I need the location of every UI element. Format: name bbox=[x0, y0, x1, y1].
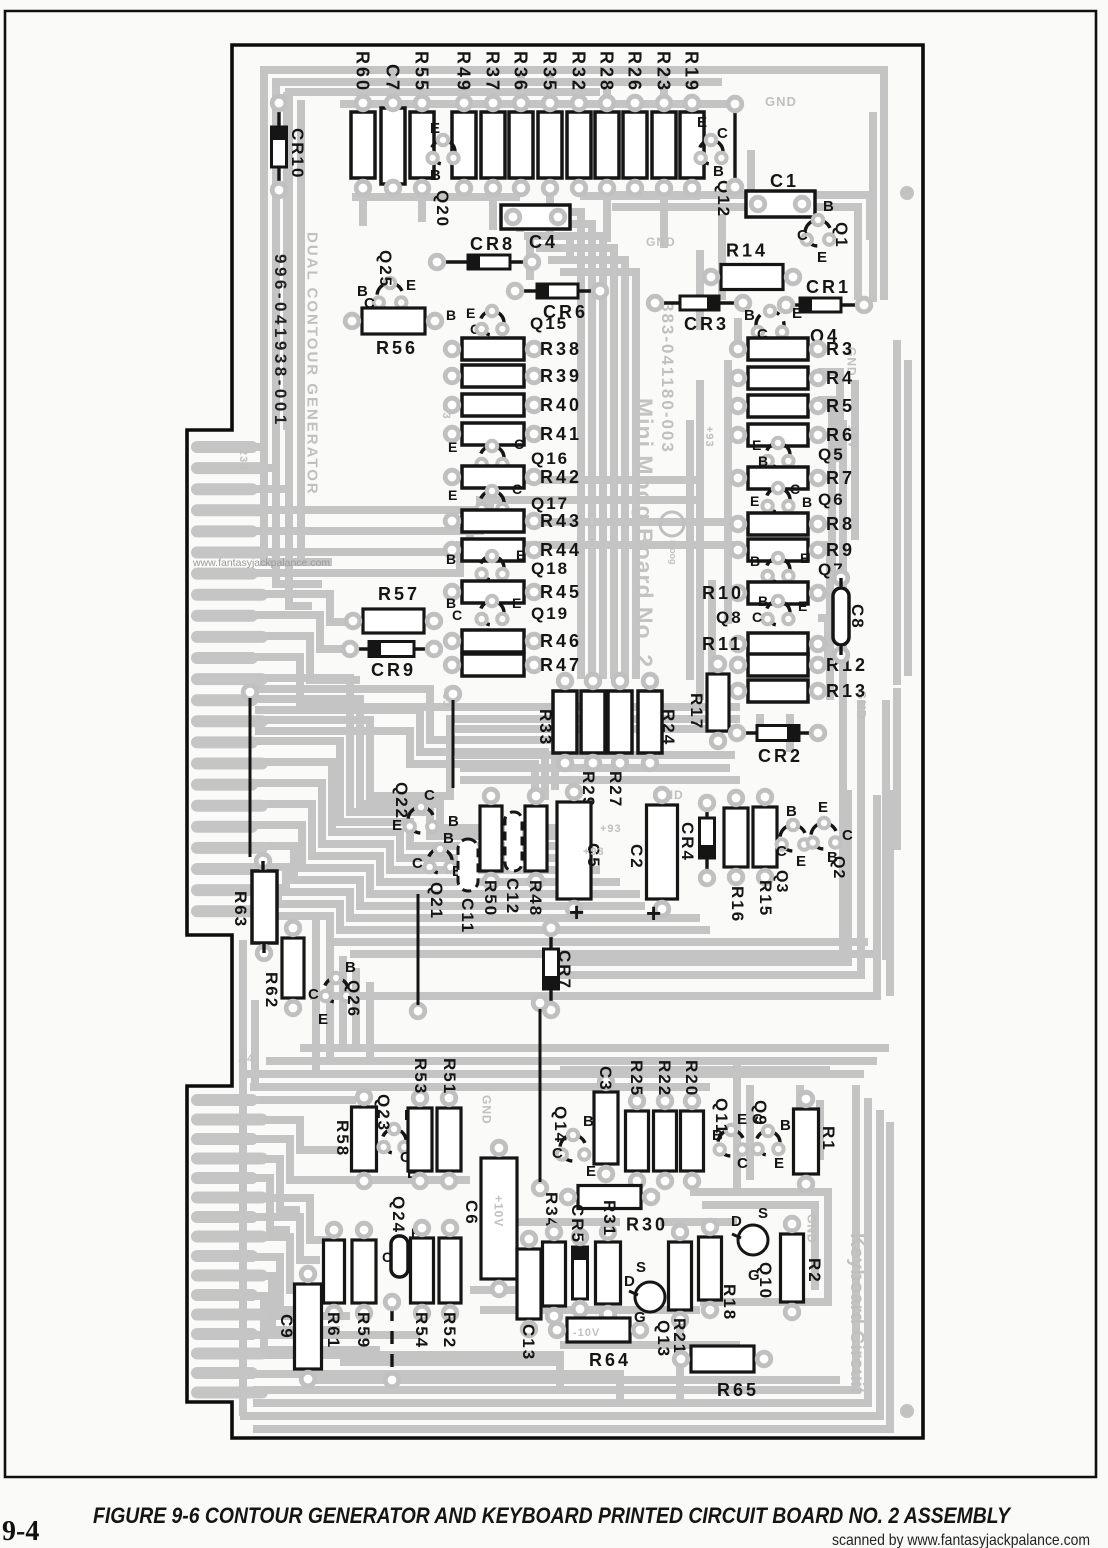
svg-text:CR4: CR4 bbox=[678, 822, 697, 862]
svg-text:Q15: Q15 bbox=[530, 314, 568, 333]
svg-text:CR1: CR1 bbox=[806, 277, 851, 297]
svg-text:Q18: Q18 bbox=[531, 559, 569, 578]
svg-text:www.fantasyjackpalance.com: www.fantasyjackpalance.com bbox=[192, 557, 330, 569]
svg-text:C2: C2 bbox=[627, 844, 646, 870]
svg-text:R59: R59 bbox=[354, 1312, 373, 1349]
svg-text:R13: R13 bbox=[826, 681, 868, 701]
svg-text:moog: moog bbox=[668, 540, 678, 565]
svg-text:R49: R49 bbox=[454, 51, 474, 93]
svg-text:D: D bbox=[731, 1213, 742, 1230]
svg-text:+93: +93 bbox=[600, 823, 622, 835]
svg-text:B: B bbox=[713, 163, 724, 180]
svg-text:B: B bbox=[758, 593, 768, 609]
svg-text:C7: C7 bbox=[383, 64, 403, 93]
svg-text:C: C bbox=[382, 1249, 392, 1265]
svg-text:+10V: +10V bbox=[492, 1195, 506, 1227]
svg-text:E: E bbox=[737, 1111, 747, 1128]
svg-text:C: C bbox=[797, 227, 808, 244]
svg-text:R51: R51 bbox=[440, 1058, 459, 1095]
svg-text:R43: R43 bbox=[540, 511, 582, 531]
svg-text:Q26: Q26 bbox=[344, 980, 363, 1018]
svg-text:R15: R15 bbox=[756, 880, 775, 917]
svg-text:CR5: CR5 bbox=[568, 1204, 587, 1244]
svg-text:GND: GND bbox=[480, 1095, 494, 1125]
svg-text:R27: R27 bbox=[606, 771, 625, 808]
svg-text:R11: R11 bbox=[702, 634, 743, 654]
svg-text:E: E bbox=[752, 437, 761, 453]
svg-text:R33: R33 bbox=[536, 709, 555, 746]
svg-text:R21: R21 bbox=[670, 1318, 689, 1355]
svg-text:+: + bbox=[646, 898, 661, 928]
svg-text:D: D bbox=[624, 1273, 635, 1290]
svg-text:R35: R35 bbox=[540, 51, 560, 93]
svg-text:Q8: Q8 bbox=[716, 608, 743, 627]
svg-text:R24: R24 bbox=[659, 709, 678, 746]
svg-text:C: C bbox=[308, 986, 319, 1003]
svg-text:+93: +93 bbox=[583, 846, 605, 858]
svg-text:R10: R10 bbox=[702, 583, 744, 603]
svg-text:GND: GND bbox=[646, 235, 676, 249]
svg-text:CR9: CR9 bbox=[371, 660, 416, 680]
svg-text:B: B bbox=[786, 803, 797, 820]
svg-text:G: G bbox=[634, 1309, 646, 1326]
svg-text:Q3: Q3 bbox=[773, 870, 790, 893]
svg-text:CR2: CR2 bbox=[758, 746, 803, 766]
svg-text:C4: C4 bbox=[529, 232, 558, 252]
svg-text:E: E bbox=[516, 547, 525, 563]
svg-text:B: B bbox=[758, 453, 768, 469]
svg-text:S: S bbox=[758, 1205, 768, 1222]
svg-text:238: 238 bbox=[237, 449, 249, 470]
svg-text:R40: R40 bbox=[540, 395, 582, 415]
svg-text:Q25: Q25 bbox=[376, 250, 395, 288]
svg-text:C: C bbox=[752, 609, 762, 625]
svg-text:S: S bbox=[636, 1259, 646, 1276]
svg-text:R63: R63 bbox=[231, 891, 250, 928]
svg-text:R54: R54 bbox=[412, 1312, 431, 1349]
svg-text:R19: R19 bbox=[682, 51, 702, 93]
svg-text:E: E bbox=[792, 305, 802, 322]
svg-text:CR8: CR8 bbox=[470, 234, 515, 254]
svg-text:E: E bbox=[818, 799, 828, 816]
svg-text:R61: R61 bbox=[324, 1312, 343, 1349]
svg-text:Q6: Q6 bbox=[818, 490, 845, 509]
svg-text:R36: R36 bbox=[511, 51, 531, 93]
svg-text:C: C bbox=[790, 481, 800, 497]
svg-text:R56: R56 bbox=[376, 338, 418, 358]
svg-text:R48: R48 bbox=[526, 880, 545, 917]
svg-text:E: E bbox=[430, 120, 440, 137]
svg-text:C: C bbox=[512, 481, 522, 497]
svg-text:B: B bbox=[446, 551, 456, 567]
svg-text:B: B bbox=[448, 813, 459, 830]
svg-text:996-041938-001: 996-041938-001 bbox=[271, 254, 290, 428]
svg-text:383-041180-003: 383-041180-003 bbox=[658, 302, 677, 454]
svg-text:9-4: 9-4 bbox=[2, 1516, 39, 1547]
svg-text:R14: R14 bbox=[726, 241, 768, 261]
svg-text:R53: R53 bbox=[411, 1058, 430, 1095]
svg-text:CR7: CR7 bbox=[555, 950, 574, 990]
svg-text:E: E bbox=[774, 1155, 784, 1172]
svg-text:Q24: Q24 bbox=[389, 1196, 408, 1234]
svg-text:C9: C9 bbox=[277, 1314, 296, 1340]
svg-text:E: E bbox=[512, 595, 521, 611]
svg-text:Mini Moog Board No. 2: Mini Moog Board No. 2 bbox=[632, 398, 658, 668]
svg-text:C: C bbox=[412, 855, 423, 872]
svg-text:R58: R58 bbox=[333, 1120, 352, 1157]
svg-text:CR10: CR10 bbox=[288, 128, 307, 179]
svg-text:R44: R44 bbox=[540, 540, 582, 560]
svg-text:R7: R7 bbox=[826, 468, 855, 488]
svg-text:R6: R6 bbox=[826, 425, 855, 445]
svg-text:B: B bbox=[583, 1113, 594, 1130]
svg-text:GND: GND bbox=[765, 94, 797, 109]
svg-text:B: B bbox=[780, 1117, 791, 1134]
svg-text:A4: A4 bbox=[238, 1053, 254, 1065]
svg-text:R38: R38 bbox=[540, 339, 582, 359]
svg-text:R20: R20 bbox=[682, 1060, 701, 1097]
svg-text:E: E bbox=[750, 493, 759, 509]
svg-text:E: E bbox=[448, 487, 457, 503]
svg-text:C: C bbox=[737, 1155, 748, 1172]
svg-text:scanned by www.fantasyjackpala: scanned by www.fantasyjackpalance.com bbox=[832, 1532, 1090, 1548]
svg-text:C11: C11 bbox=[458, 898, 477, 934]
svg-text:Q21: Q21 bbox=[427, 882, 446, 920]
svg-text:R37: R37 bbox=[483, 51, 503, 93]
svg-text:Q11: Q11 bbox=[712, 1098, 731, 1135]
svg-text:Keyboard Circuit: Keyboard Circuit bbox=[846, 1233, 867, 1394]
svg-text:CR3: CR3 bbox=[684, 314, 729, 334]
svg-text:DUAL CONTOUR GENERATOR: DUAL CONTOUR GENERATOR bbox=[304, 232, 321, 496]
svg-text:E: E bbox=[817, 249, 827, 266]
svg-text:E: E bbox=[798, 598, 807, 614]
svg-text:E: E bbox=[697, 114, 707, 131]
svg-text:Q16: Q16 bbox=[531, 449, 569, 468]
svg-text:R3: R3 bbox=[826, 339, 855, 359]
svg-text:R46: R46 bbox=[540, 631, 582, 651]
svg-text:Q1: Q1 bbox=[832, 222, 851, 249]
svg-text:C8: C8 bbox=[848, 604, 867, 630]
svg-text:B: B bbox=[446, 307, 456, 323]
svg-text:C: C bbox=[842, 827, 853, 844]
svg-text:R22: R22 bbox=[655, 1060, 674, 1097]
svg-text:+: + bbox=[569, 897, 584, 927]
svg-text:Q10: Q10 bbox=[756, 1262, 775, 1300]
svg-text:B: B bbox=[345, 959, 356, 976]
svg-text:R65: R65 bbox=[717, 1380, 759, 1400]
svg-text:R5: R5 bbox=[826, 396, 855, 416]
svg-text:Q22: Q22 bbox=[392, 782, 411, 820]
svg-text:R32: R32 bbox=[569, 51, 589, 93]
svg-text:R47: R47 bbox=[540, 655, 582, 675]
svg-text:C1: C1 bbox=[770, 171, 799, 191]
svg-text:-10V: -10V bbox=[573, 1327, 600, 1339]
svg-text:E: E bbox=[318, 1011, 328, 1028]
svg-text:R1: R1 bbox=[819, 1126, 838, 1152]
svg-text:Q19: Q19 bbox=[531, 604, 569, 623]
svg-text:B: B bbox=[744, 307, 755, 324]
svg-text:R18: R18 bbox=[720, 1284, 739, 1321]
svg-text:R57: R57 bbox=[378, 584, 420, 604]
svg-text:R30: R30 bbox=[626, 1215, 668, 1235]
svg-text:Q5: Q5 bbox=[818, 445, 845, 464]
svg-text:E: E bbox=[800, 550, 809, 566]
svg-text:R4: R4 bbox=[826, 368, 855, 388]
svg-text:R64: R64 bbox=[589, 1350, 631, 1370]
svg-text:R31: R31 bbox=[600, 1200, 619, 1237]
svg-text:FIGURE 9-6 CONTOUR GENERATOR A: FIGURE 9-6 CONTOUR GENERATOR AND KEYBOAR… bbox=[93, 1503, 1012, 1528]
svg-text:E: E bbox=[466, 305, 475, 321]
svg-text:R16: R16 bbox=[728, 886, 747, 923]
svg-text:C: C bbox=[452, 607, 462, 623]
svg-text:C: C bbox=[776, 843, 787, 860]
svg-text:R23: R23 bbox=[654, 51, 674, 93]
svg-text:R17: R17 bbox=[687, 693, 706, 730]
svg-text:R60: R60 bbox=[353, 51, 373, 93]
svg-text:B: B bbox=[802, 494, 812, 510]
svg-text:B: B bbox=[430, 167, 441, 184]
svg-text:B: B bbox=[750, 553, 760, 569]
svg-text:C12: C12 bbox=[503, 878, 522, 915]
svg-text:E: E bbox=[796, 853, 806, 870]
svg-text:C13: C13 bbox=[519, 1324, 538, 1361]
svg-text:R39: R39 bbox=[540, 366, 582, 386]
svg-text:R25: R25 bbox=[627, 1060, 646, 1097]
svg-text:R50: R50 bbox=[481, 880, 500, 917]
svg-text:R52: R52 bbox=[440, 1312, 459, 1349]
svg-text:Q20: Q20 bbox=[433, 190, 452, 228]
svg-text:R45: R45 bbox=[540, 582, 582, 602]
svg-text:GND: GND bbox=[805, 1214, 819, 1244]
svg-text:Q14: Q14 bbox=[551, 1106, 570, 1144]
svg-text:R2: R2 bbox=[805, 1258, 824, 1284]
svg-text:R42: R42 bbox=[540, 467, 582, 487]
svg-text:R9: R9 bbox=[826, 540, 855, 560]
svg-text:R26: R26 bbox=[625, 51, 645, 93]
svg-text:E: E bbox=[448, 439, 457, 455]
svg-text:R41: R41 bbox=[540, 424, 582, 444]
svg-text:R55: R55 bbox=[412, 51, 432, 93]
svg-text:C: C bbox=[717, 125, 728, 142]
svg-text:R28: R28 bbox=[597, 51, 617, 93]
svg-text:C: C bbox=[552, 1145, 563, 1162]
svg-text:C: C bbox=[424, 787, 435, 804]
svg-text:Q2: Q2 bbox=[830, 856, 847, 879]
svg-text:R8: R8 bbox=[826, 514, 855, 534]
svg-text:C3: C3 bbox=[596, 1066, 615, 1092]
svg-text:B: B bbox=[823, 198, 834, 215]
svg-text:+93: +93 bbox=[703, 426, 715, 448]
svg-text:Q9: Q9 bbox=[751, 1100, 770, 1127]
svg-text:R62: R62 bbox=[262, 972, 281, 1009]
svg-text:C: C bbox=[514, 436, 524, 452]
svg-text:E: E bbox=[406, 277, 416, 294]
svg-text:Q23: Q23 bbox=[374, 1094, 393, 1132]
svg-text:C6: C6 bbox=[462, 1200, 481, 1226]
